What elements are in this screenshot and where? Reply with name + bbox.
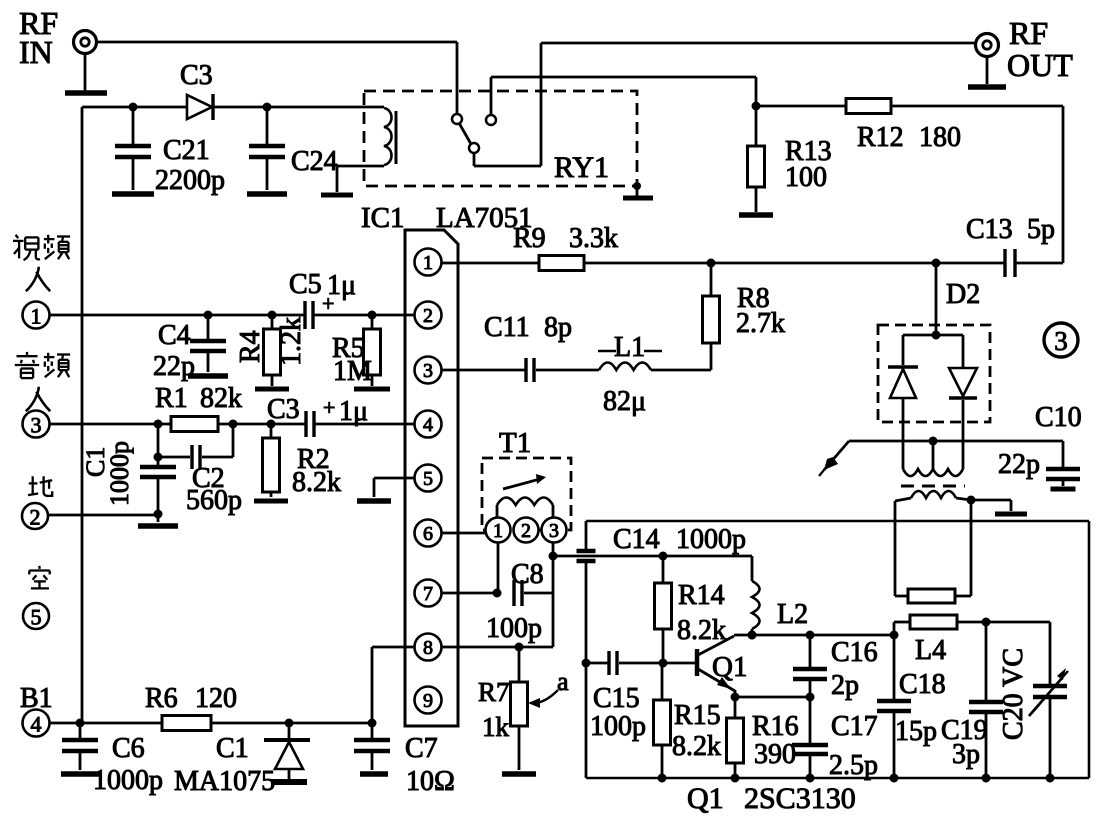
svg-text:C3: C3 <box>267 394 300 425</box>
svg-text:C1: C1 <box>216 733 249 764</box>
svg-text:C7: C7 <box>405 733 438 764</box>
svg-text:5: 5 <box>423 468 433 490</box>
svg-text:C20 VC: C20 VC <box>998 648 1029 740</box>
svg-text:5: 5 <box>31 605 42 630</box>
svg-text:82μ: 82μ <box>603 386 646 417</box>
svg-text:R6: R6 <box>145 683 178 714</box>
svg-text:3: 3 <box>1054 326 1068 356</box>
svg-text:C16: C16 <box>831 637 878 668</box>
svg-text:+: + <box>323 395 335 420</box>
svg-text:10Ω: 10Ω <box>406 766 455 797</box>
svg-text:L2: L2 <box>777 599 808 630</box>
svg-text:8.2k: 8.2k <box>672 731 721 762</box>
svg-text:2: 2 <box>521 520 531 542</box>
svg-text:C17: C17 <box>831 711 878 742</box>
svg-text:4: 4 <box>423 414 433 436</box>
svg-text:IN: IN <box>19 34 53 70</box>
svg-text:8p: 8p <box>544 312 572 343</box>
svg-text:8.2k: 8.2k <box>292 467 341 498</box>
svg-text:1: 1 <box>31 304 42 329</box>
svg-text:C14: C14 <box>613 524 660 555</box>
svg-text:6: 6 <box>423 523 433 545</box>
svg-text:D2: D2 <box>946 279 980 310</box>
svg-text:R4: R4 <box>235 330 266 363</box>
svg-text:100p: 100p <box>486 613 542 644</box>
svg-text:R12: R12 <box>857 122 904 153</box>
svg-text:C6: C6 <box>112 733 145 764</box>
svg-text:2p: 2p <box>831 670 859 701</box>
svg-text:C13: C13 <box>966 214 1013 245</box>
svg-text:1.2k: 1.2k <box>276 317 307 366</box>
svg-text:100p: 100p <box>590 711 646 742</box>
svg-text:8: 8 <box>423 637 433 659</box>
svg-text:3.3k: 3.3k <box>569 223 618 254</box>
svg-text:1μ: 1μ <box>339 396 368 427</box>
svg-text:2.7k: 2.7k <box>736 308 785 339</box>
svg-text:15p: 15p <box>895 716 937 747</box>
svg-text:2: 2 <box>423 305 433 327</box>
svg-text:2.5p: 2.5p <box>829 750 878 781</box>
svg-text:R16: R16 <box>752 711 799 742</box>
svg-text:C5: C5 <box>289 269 322 300</box>
svg-text:180: 180 <box>919 122 961 153</box>
svg-text:C18: C18 <box>899 669 946 700</box>
svg-text:L4: L4 <box>915 635 946 666</box>
svg-text:2: 2 <box>30 505 41 530</box>
svg-text:L1: L1 <box>614 332 645 363</box>
svg-text:C3: C3 <box>180 60 213 91</box>
svg-text:R14: R14 <box>678 580 725 611</box>
svg-text:C10: C10 <box>1035 402 1082 433</box>
svg-text:390: 390 <box>754 739 796 770</box>
svg-text:1000p: 1000p <box>93 765 163 796</box>
svg-text:a: a <box>557 667 569 696</box>
svg-text:RY1: RY1 <box>554 151 609 184</box>
svg-text:1000p: 1000p <box>105 441 134 506</box>
svg-text:1: 1 <box>493 520 503 542</box>
svg-text:3: 3 <box>549 520 559 542</box>
svg-text:9: 9 <box>423 690 433 712</box>
svg-text:3: 3 <box>423 360 433 382</box>
svg-text:C8: C8 <box>511 559 544 590</box>
svg-text:7: 7 <box>423 583 433 605</box>
svg-text:1M: 1M <box>333 356 372 387</box>
svg-text:C21: C21 <box>163 135 210 166</box>
svg-text:560p: 560p <box>186 485 242 516</box>
svg-text:1k: 1k <box>482 712 510 742</box>
svg-text:C11: C11 <box>484 312 530 343</box>
svg-text:Q1: Q1 <box>687 782 724 815</box>
svg-text:1000p: 1000p <box>676 524 746 555</box>
svg-text:R1: R1 <box>155 383 188 414</box>
svg-text:5p: 5p <box>1027 214 1055 245</box>
svg-text:8.2k: 8.2k <box>677 615 726 646</box>
svg-text:22p: 22p <box>998 449 1040 480</box>
svg-text:R15: R15 <box>674 700 721 731</box>
svg-text:RF: RF <box>1009 15 1048 51</box>
svg-text:R7: R7 <box>478 677 510 707</box>
svg-text:OUT: OUT <box>1007 47 1073 83</box>
svg-text:T1: T1 <box>499 427 531 459</box>
svg-text:82k: 82k <box>200 383 242 414</box>
svg-text:1μ: 1μ <box>327 270 356 301</box>
svg-text:R9: R9 <box>513 223 546 254</box>
svg-text:1: 1 <box>423 252 433 274</box>
svg-text:MA1075: MA1075 <box>174 766 275 797</box>
svg-text:C4: C4 <box>158 320 191 351</box>
svg-text:3: 3 <box>31 413 42 438</box>
svg-text:IC1: IC1 <box>361 202 405 234</box>
svg-text:2SC3130: 2SC3130 <box>744 782 856 815</box>
svg-text:22p: 22p <box>153 351 195 382</box>
svg-text:4: 4 <box>31 712 42 737</box>
svg-text:C24: C24 <box>291 146 338 177</box>
svg-text:100: 100 <box>785 162 827 193</box>
svg-text:Q1: Q1 <box>712 651 747 683</box>
svg-text:C15: C15 <box>593 683 640 714</box>
svg-text:2200p: 2200p <box>155 165 225 196</box>
svg-text:3p: 3p <box>952 739 980 770</box>
svg-text:120: 120 <box>195 683 237 714</box>
